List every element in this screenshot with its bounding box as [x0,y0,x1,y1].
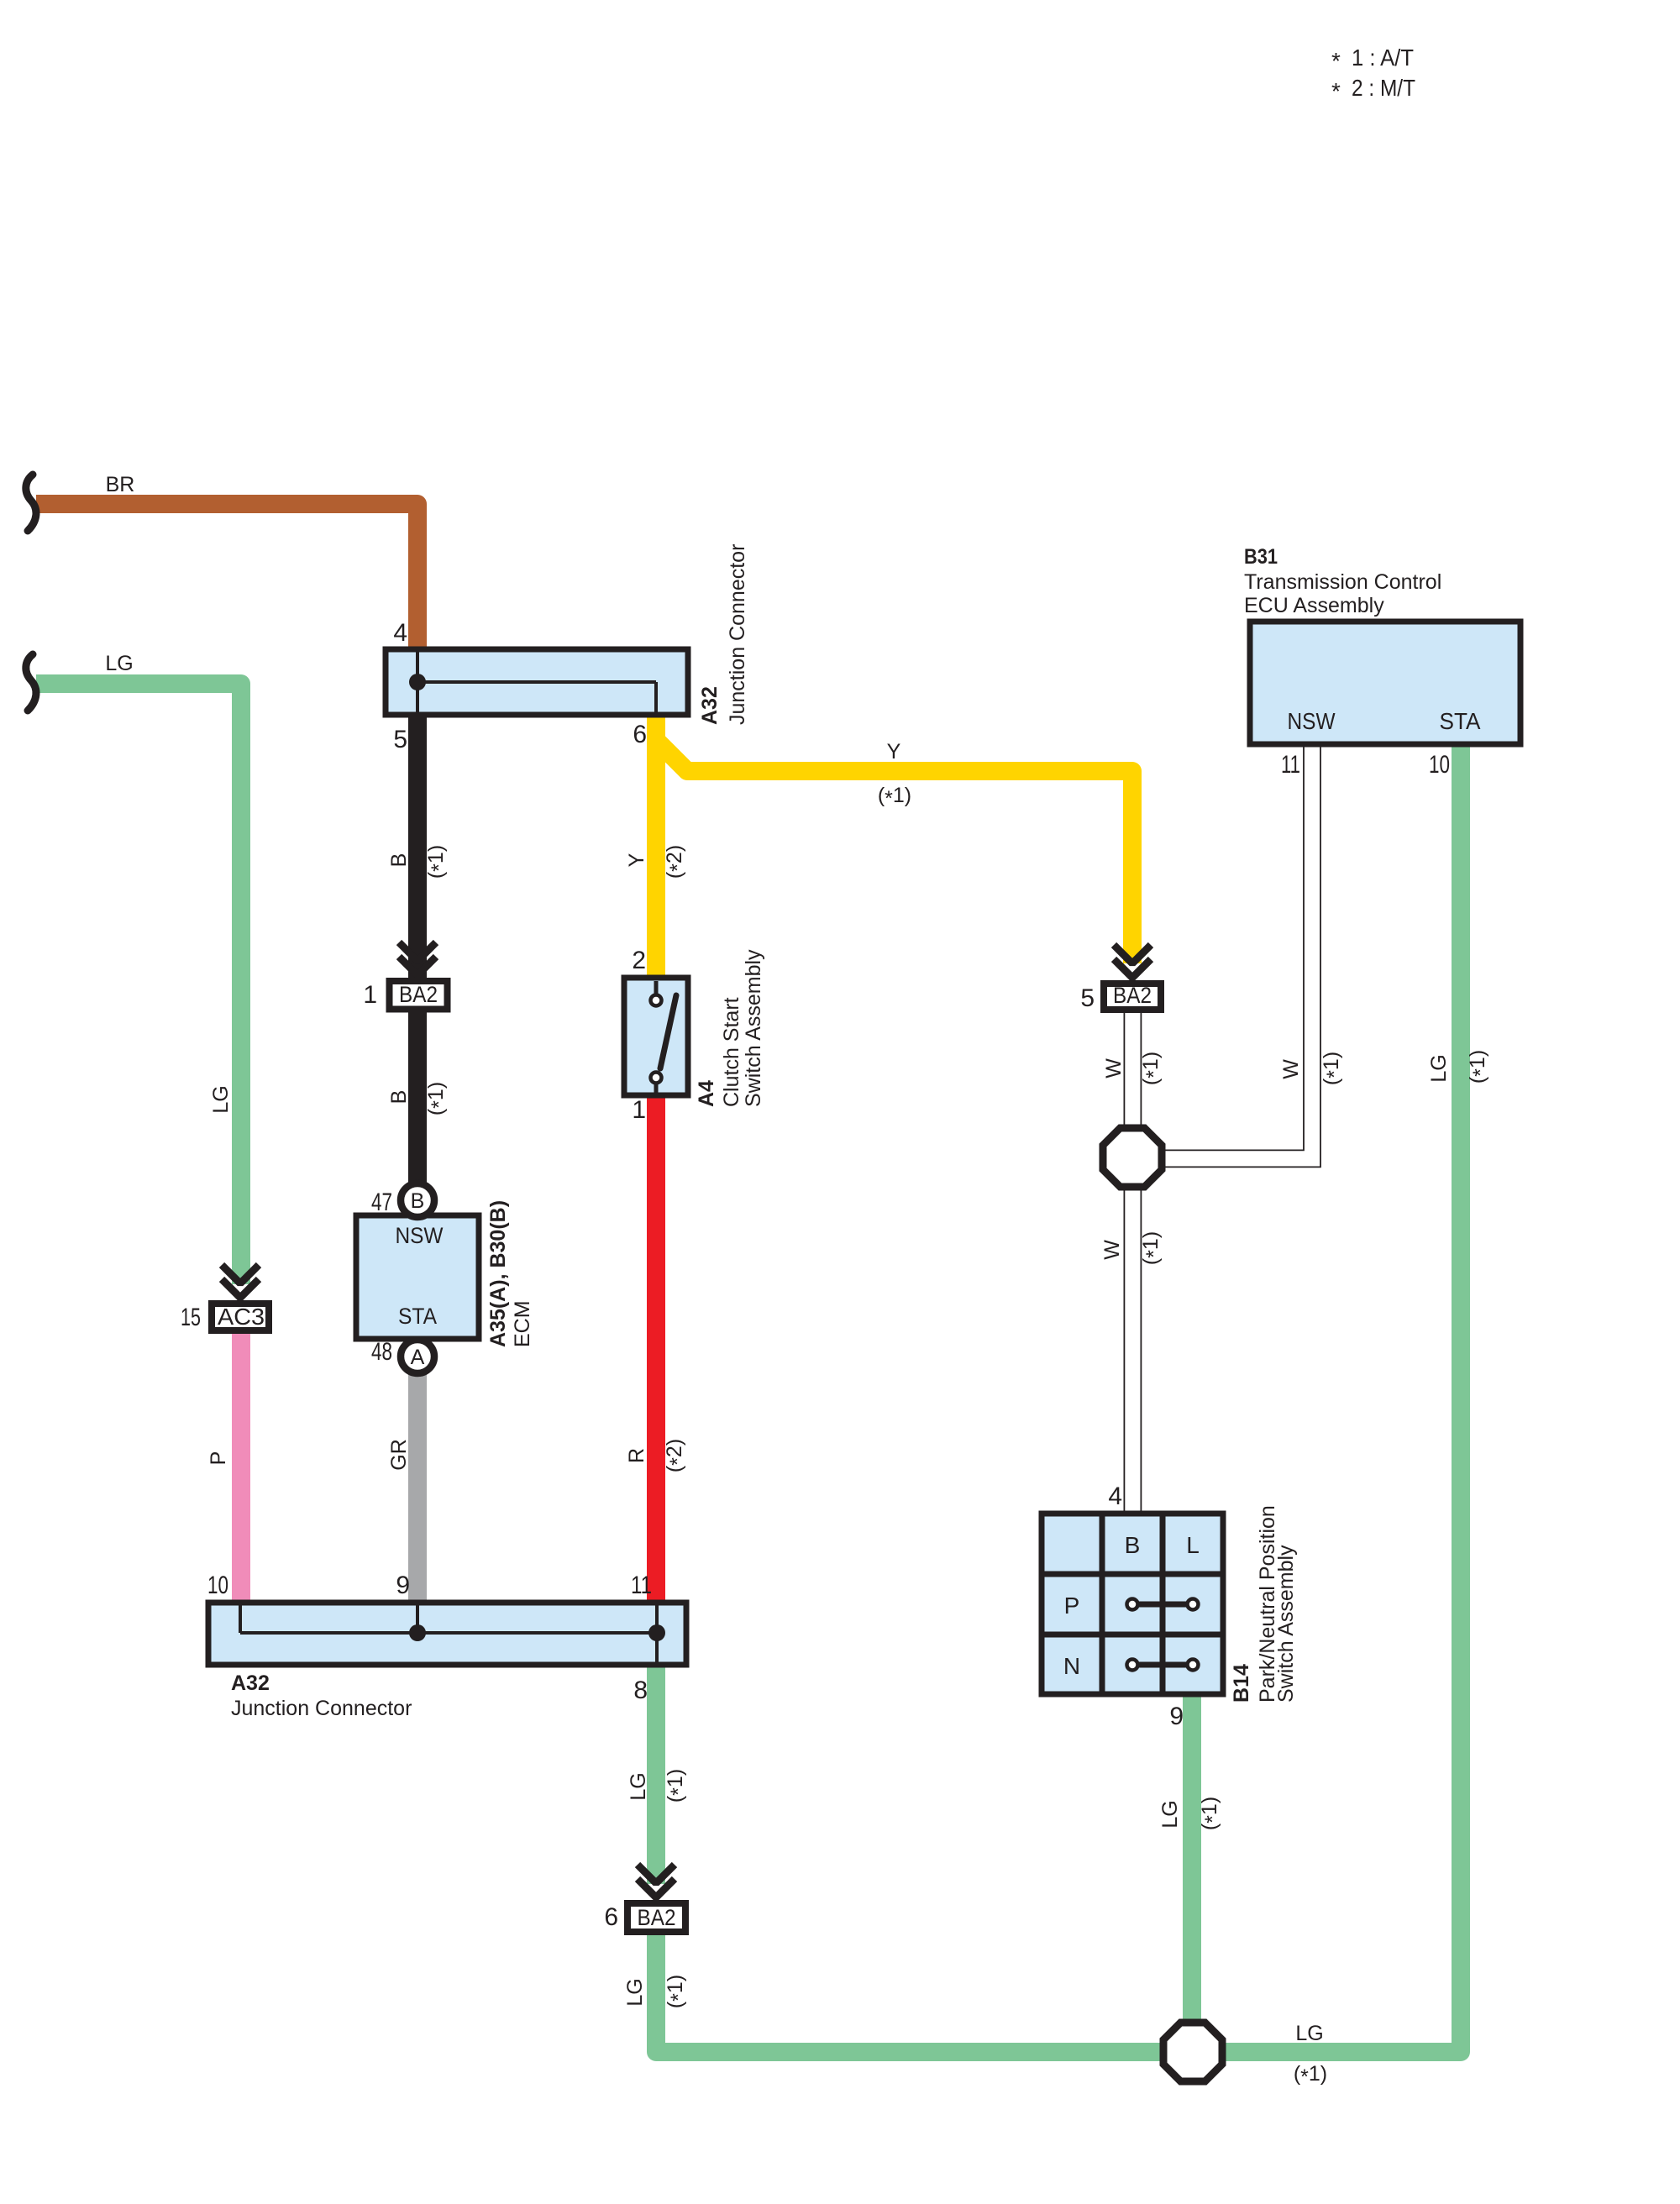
svg-text:(*1): (*1) [1466,1050,1493,1084]
svg-text:AC3: AC3 [218,1304,265,1330]
svg-text:2 : M/T: 2 : M/T [1352,75,1415,101]
svg-text:*: * [1331,78,1341,104]
svg-text:B: B [387,1090,411,1105]
svg-text:(*1): (*1) [1320,1052,1347,1085]
svg-text:ECM: ECM [511,1300,534,1347]
svg-text:(*1): (*1) [664,1769,690,1803]
svg-text:Y: Y [625,853,648,867]
svg-text:LG: LG [1427,1054,1451,1082]
svg-text:STA: STA [398,1304,437,1329]
svg-text:4: 4 [393,619,407,647]
svg-text:(*1): (*1) [1294,2062,1327,2089]
svg-text:BA2: BA2 [399,982,438,1007]
svg-text:(*1): (*1) [424,845,451,879]
svg-text:BA2: BA2 [1113,983,1152,1008]
svg-text:5: 5 [1080,984,1095,1012]
svg-text:A: A [411,1346,425,1369]
svg-text:B31: B31 [1244,545,1278,569]
svg-text:STA: STA [1440,708,1481,734]
svg-text:6: 6 [633,721,647,748]
svg-text:GR: GR [387,1439,411,1471]
svg-text:Junction Connector: Junction Connector [231,1697,412,1720]
svg-text:B14: B14 [1230,1664,1253,1703]
svg-text:11: 11 [1281,751,1300,779]
svg-text:15: 15 [181,1304,201,1331]
svg-text:*: * [1331,48,1341,74]
svg-text:A35(A), B30(B): A35(A), B30(B) [486,1200,510,1347]
svg-text:W: W [1100,1240,1124,1260]
svg-text:N: N [1063,1653,1080,1679]
svg-text:Junction Connector: Junction Connector [726,544,749,725]
svg-text:LG: LG [627,1772,650,1800]
svg-text:B: B [411,1189,425,1213]
svg-text:W: W [1279,1059,1303,1079]
svg-text:48: 48 [371,1338,392,1366]
svg-text:LG: LG [1158,1800,1182,1828]
svg-text:NSW: NSW [1288,708,1336,734]
svg-text:1: 1 [363,981,377,1009]
svg-text:8: 8 [633,1677,648,1704]
svg-text:(*2): (*2) [663,845,690,879]
svg-text:LG: LG [623,1978,647,2006]
svg-text:Transmission Control: Transmission Control [1244,570,1441,594]
svg-text:Switch Assembly: Switch Assembly [1274,1545,1298,1703]
svg-text:P: P [207,1451,230,1466]
svg-text:P: P [1064,1593,1080,1619]
svg-text:Switch Assembly: Switch Assembly [742,949,765,1107]
svg-text:47: 47 [371,1189,392,1216]
svg-text:R: R [625,1448,648,1463]
svg-text:A4: A4 [695,1080,718,1107]
svg-text:11: 11 [631,1572,652,1599]
svg-text:ECU Assembly: ECU Assembly [1244,594,1384,617]
svg-text:LG: LG [105,652,133,675]
svg-text:(*1): (*1) [1139,1231,1166,1265]
svg-text:4: 4 [1108,1482,1122,1510]
svg-text:NSW: NSW [396,1223,444,1248]
svg-text:W: W [1102,1058,1126,1078]
svg-text:(*1): (*1) [1139,1052,1166,1085]
svg-text:9: 9 [396,1572,410,1599]
svg-text:2: 2 [632,947,646,974]
svg-text:(*1): (*1) [878,784,911,811]
svg-text:9: 9 [1169,1703,1184,1730]
svg-text:L: L [1186,1532,1200,1558]
svg-text:(*1): (*1) [424,1082,451,1115]
svg-text:B: B [387,853,411,868]
svg-text:(*2): (*2) [663,1439,690,1472]
svg-text:LG: LG [209,1085,233,1113]
svg-text:BR: BR [106,473,135,496]
svg-text:A32: A32 [698,686,722,725]
svg-text:5: 5 [393,726,407,753]
svg-text:(*1): (*1) [664,1975,690,2008]
svg-text:B: B [1125,1532,1141,1558]
svg-text:10: 10 [207,1572,228,1599]
svg-text:6: 6 [604,1903,618,1931]
svg-text:BA2: BA2 [638,1905,676,1930]
svg-text:1 : A/T: 1 : A/T [1352,45,1414,71]
svg-text:(*1): (*1) [1198,1797,1225,1830]
svg-text:Y: Y [887,740,901,764]
svg-text:LG: LG [1295,2022,1323,2045]
svg-text:A32: A32 [231,1671,270,1695]
svg-text:Clutch Start: Clutch Start [720,997,743,1107]
svg-text:1: 1 [632,1096,646,1124]
svg-text:10: 10 [1429,751,1450,779]
